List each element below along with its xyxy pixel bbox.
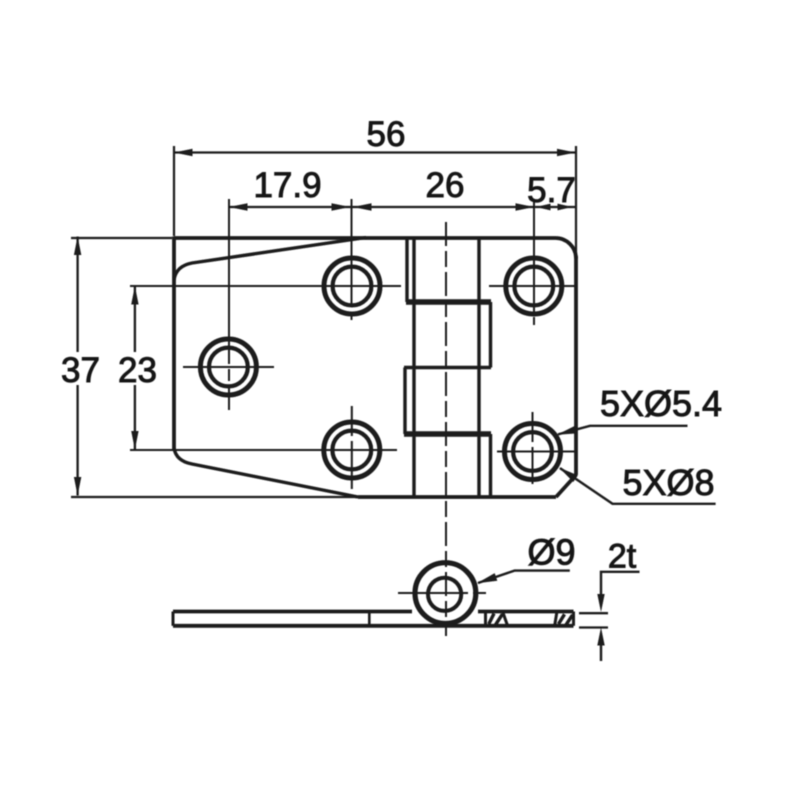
hatch stroke B2 <box>566 615 573 625</box>
hatch stroke B1 <box>559 614 565 624</box>
dimension 23 bottom arrow <box>131 431 138 450</box>
label 5X08 leader <box>560 468 716 504</box>
right leaf right edge <box>574 256 578 475</box>
side view plate right end cap <box>572 612 575 626</box>
hole top-middle inner <box>333 267 372 306</box>
hole left outer <box>200 339 256 395</box>
hatch stroke A2 <box>496 614 503 625</box>
svg-text:Ø9: Ø9 <box>527 532 575 573</box>
left leaf upper bend line <box>174 238 366 281</box>
svg-text:5.7: 5.7 <box>527 171 576 210</box>
label diameter 9 arrow <box>477 573 497 583</box>
svg-text:5XØ5.4: 5XØ5.4 <box>600 383 722 424</box>
dimension 56 left extension <box>173 146 175 236</box>
knuckle divider 3 <box>404 431 491 437</box>
svg-text:17.9: 17.9 <box>253 166 321 205</box>
dimension 26 left arrow <box>353 203 372 210</box>
dimension 23 line lower <box>134 385 136 450</box>
dimension 17.9 right arrow <box>332 203 351 210</box>
hole bottom-middle outer <box>324 422 380 478</box>
centerline vertical top-right hole <box>533 199 535 330</box>
left leaf lower bend line <box>174 448 358 497</box>
centerline vertical bottom-right hole <box>532 412 534 489</box>
hole top-middle outer <box>324 258 380 314</box>
centerline vertical left hole <box>228 199 230 410</box>
label 5X08 arrow <box>559 468 578 483</box>
hole left inner <box>209 348 248 387</box>
dimension 2t top tick <box>579 612 608 614</box>
svg-text:26: 26 <box>426 166 465 205</box>
knuckle divider 1 <box>406 299 491 305</box>
hole bottom-middle inner <box>332 431 371 470</box>
svg-text:5XØ8: 5XØ8 <box>622 462 714 503</box>
bottom edge both leaves <box>358 495 556 499</box>
left leaf right edge segment 1 <box>405 238 408 302</box>
centerline vertical bottom-middle hole <box>351 406 353 494</box>
side view plate top line right <box>478 610 574 614</box>
side view plate left end cap <box>172 612 175 626</box>
knuckle divider 2 <box>404 366 491 369</box>
centerline horizontal left hole <box>183 366 274 368</box>
dimension 56 right extension <box>575 146 577 256</box>
dimension 37 bottom extension <box>71 496 358 498</box>
dimension 26 right arrow <box>516 203 535 210</box>
centerline horizontal bottom-right hole <box>497 451 577 453</box>
dimension 5.7 left arrow <box>536 204 551 211</box>
dimension 56 left arrow <box>174 149 193 156</box>
left leaf top edge <box>174 236 556 240</box>
side view knuckle horizontal centerline <box>398 592 491 594</box>
dimension 17.9 left arrow <box>229 203 248 210</box>
svg-text:56: 56 <box>367 115 406 154</box>
dimension 2t bottom tick <box>579 626 608 628</box>
label diameter 9 leader <box>478 571 570 583</box>
knuckle strip right line <box>477 238 480 497</box>
dimension 56 line <box>174 151 576 153</box>
label 5X05.4 leader <box>558 426 688 435</box>
side view bend line <box>368 612 371 626</box>
dimension 2t top arrow <box>597 594 604 612</box>
dimension 23 line upper <box>134 286 136 352</box>
dimension 23 top arrow <box>131 286 138 305</box>
right leaf rounded corner top-right <box>556 238 577 259</box>
hole top-right outer <box>506 258 562 314</box>
dimension 37 top extension <box>71 237 172 239</box>
hatch stroke A1 <box>489 614 494 625</box>
svg-text:37: 37 <box>61 351 100 390</box>
side view section joint line <box>484 612 487 626</box>
centerline horizontal bottom hole row <box>130 449 397 451</box>
centerline vertical top-middle hole <box>351 199 353 325</box>
dimension 37 bottom arrow <box>74 477 81 496</box>
countersink left wall <box>503 613 508 626</box>
dimension 5.7 line <box>534 206 576 208</box>
side view knuckle pin hole <box>428 578 461 611</box>
label 5X05.4 arrow <box>557 426 577 435</box>
hinge pin axis centerline <box>445 222 447 636</box>
dimension 2t leader <box>601 572 640 597</box>
dimension 37 top arrow <box>74 237 81 256</box>
hole top-right inner <box>514 267 553 306</box>
knuckle strip left line <box>412 238 415 497</box>
right leaf left edge segment 1 <box>489 302 492 368</box>
dimension 56 right arrow <box>557 149 576 156</box>
right leaf left edge segment 2 <box>489 434 492 497</box>
dimension 2t bottom line <box>600 643 602 661</box>
side view plate top line left <box>173 610 412 614</box>
countersink right wall <box>555 611 557 625</box>
svg-text:2t: 2t <box>608 538 637 576</box>
left leaf left edge <box>172 237 176 451</box>
dimension 37 line lower <box>76 385 78 496</box>
side view plate bottom line <box>173 624 574 628</box>
hole bottom-right inner <box>513 432 552 471</box>
centerline horizontal top-right hole <box>489 285 577 287</box>
hole bottom-right outer <box>505 424 561 480</box>
left leaf right edge segment 2 <box>403 368 406 435</box>
dimension 37 line upper <box>76 237 78 353</box>
dimension 5.7 right arrow <box>558 204 573 211</box>
svg-text:23: 23 <box>118 351 157 390</box>
side view knuckle outer circle <box>415 563 476 624</box>
dimension 17.9 and 26 line <box>229 206 534 208</box>
right leaf bottom chamfer <box>556 475 576 497</box>
dimension 2t bottom arrow <box>597 628 604 646</box>
centerline horizontal top hole row <box>130 285 401 287</box>
